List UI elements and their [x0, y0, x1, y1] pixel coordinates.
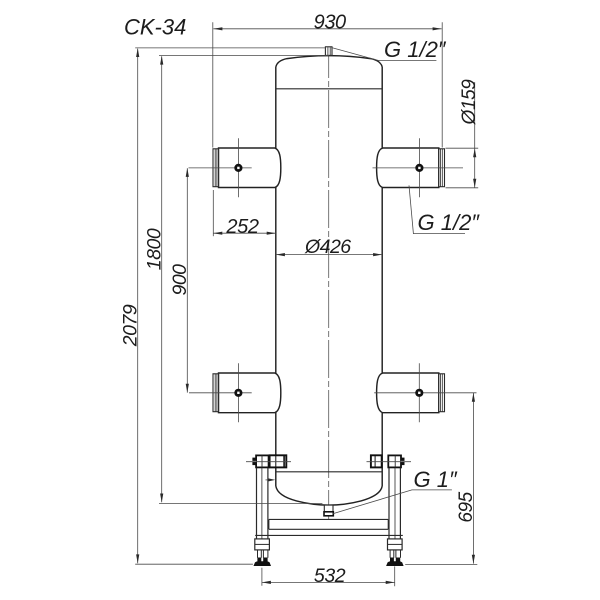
right foot nut	[390, 558, 400, 562]
dim 532 extension lines	[262, 566, 395, 586]
bottom nozzle G 1	[324, 505, 333, 516]
stand left leg	[257, 468, 268, 539]
port lower-right body	[377, 373, 439, 413]
port lower-left flange	[213, 374, 219, 412]
svg-text:2079: 2079	[119, 304, 141, 347]
dim 532 line	[262, 581, 395, 583]
left foot stem	[258, 550, 268, 558]
stand left leg top block	[256, 455, 269, 467]
vessel shell left wall	[275, 67, 277, 486]
dim diam426 line	[276, 254, 382, 256]
dim 1800 line	[161, 56, 163, 502]
svg-text:Ø426: Ø426	[304, 236, 351, 258]
port lower-left crosshair	[189, 363, 252, 422]
dim 930 arrows	[213, 27, 441, 30]
dim 900 line	[186, 168, 188, 392]
label G 1/2 top leader	[332, 48, 436, 61]
port upper-left flange	[213, 149, 219, 187]
stand left lug (thick block)	[270, 455, 287, 467]
label G 1/2 right leader	[409, 185, 465, 233]
port lower-left plug bolt	[234, 389, 242, 397]
svg-text:G 1/2″: G 1/2″	[384, 37, 447, 62]
port upper-right body	[377, 148, 439, 188]
dim diam159 arrows	[473, 148, 476, 188]
left foot nut	[257, 558, 267, 562]
dim 252 arrows	[213, 232, 275, 235]
svg-text:252: 252	[225, 216, 258, 238]
dim 252 line	[213, 232, 275, 234]
dim 695 extension line bottom	[405, 564, 477, 566]
stand back rail	[255, 534, 403, 536]
dim 695 line	[472, 393, 474, 564]
stand right leg	[389, 468, 400, 539]
stand left clamp centerline	[246, 461, 291, 463]
svg-text:CK-34: CK-34	[124, 14, 186, 39]
port upper-right plug bolt	[415, 164, 423, 172]
port upper-left plug bolt	[234, 164, 242, 172]
port upper-right crosshair	[373, 138, 464, 197]
vessel shell right wall	[381, 67, 383, 486]
dim diam159 extension lines	[446, 148, 479, 188]
top dome weld seam	[276, 88, 382, 90]
stand right clamp bolt	[401, 458, 405, 466]
svg-text:1800: 1800	[143, 228, 165, 270]
label G 1 leader	[333, 490, 452, 514]
svg-text:Ø159: Ø159	[459, 79, 480, 126]
svg-text:900: 900	[169, 264, 191, 296]
left foot pad	[254, 561, 272, 566]
right foot sleeve	[388, 539, 403, 550]
right foot stem	[390, 550, 400, 558]
centerline vessel vertical axis	[328, 47, 330, 520]
top nozzle G 1/2	[325, 47, 332, 56]
port lower-right crosshair + 695 top extension	[374, 363, 476, 422]
svg-text:G 1/2″: G 1/2″	[418, 210, 481, 235]
dim 532 arrows	[262, 581, 395, 584]
dim diam159 line	[474, 82, 476, 188]
stand front rail	[269, 519, 388, 529]
svg-text:695: 695	[456, 491, 477, 522]
port upper-left body	[219, 148, 281, 188]
bottom dome	[276, 486, 382, 505]
dim 695 arrows	[472, 393, 475, 564]
port lower-right plug bolt	[415, 389, 423, 397]
dim 930 extension lines	[213, 22, 442, 147]
port lower-left body	[219, 373, 281, 413]
bottom dome weld seam	[276, 471, 382, 473]
vessel top dome	[276, 56, 382, 67]
dim 930 line	[213, 28, 441, 30]
right foot pad	[386, 561, 404, 566]
port upper-left crosshair	[189, 138, 252, 197]
dim diam426 arrows	[276, 253, 382, 256]
port lower-right flange	[439, 374, 445, 412]
stand left clamp bolt	[252, 458, 256, 466]
stand right lug (thick block)	[371, 455, 382, 467]
port upper-right flange	[439, 149, 445, 187]
dim 2079 line	[137, 49, 139, 563]
dim 1800 extension lines	[159, 56, 329, 504]
left foot sleeve	[255, 539, 270, 550]
dim 1800 arrows	[160, 56, 163, 503]
dim 2079 arrows	[136, 48, 139, 563]
stand right clamp centerline	[367, 461, 412, 463]
stand right leg top block	[388, 455, 401, 467]
dim 2079 extension lines	[135, 48, 325, 564]
svg-text:G 1″: G 1″	[414, 467, 458, 492]
dim 900 arrows	[186, 168, 189, 393]
svg-text:930: 930	[314, 12, 346, 34]
weld arrow at left skirt	[266, 478, 276, 481]
dim 252 extension line	[212, 190, 214, 236]
svg-text:532: 532	[314, 565, 346, 587]
